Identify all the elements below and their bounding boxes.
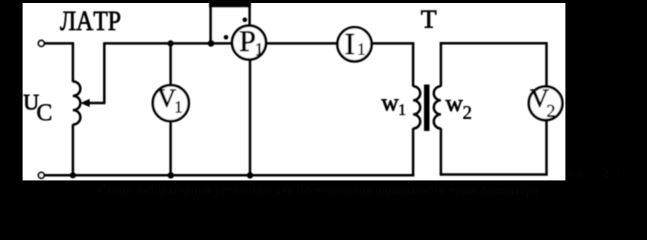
wire V2 vertical bottom: [545, 120, 548, 176]
polarity dot left of P1: [224, 35, 229, 40]
terminal top-left: [38, 41, 44, 47]
wire tap vertical: [103, 42, 106, 103]
wire V2 vertical top: [545, 42, 548, 87]
wattmeter P1 circle: [232, 26, 266, 60]
wattmeter current-coil box right side: [248, 4, 251, 27]
label LATR (autotransformer): [60, 12, 120, 31]
wire main top rail: [104, 42, 232, 45]
wire bottom rail: [45, 174, 415, 177]
wire secondary left vertical bottom: [440, 128, 443, 175]
wire P1 to I1: [265, 42, 339, 45]
voltmeter V2 circle: [529, 87, 563, 121]
wire primary right vertical: [412, 42, 415, 86]
label I1 inside ammeter: [346, 34, 354, 54]
junction dot bottom LATR: [70, 172, 76, 178]
wire LATR winding vertical top: [72, 42, 75, 82]
wire V1 vertical bottom: [169, 121, 172, 177]
autotransformer LATR winding coil: [73, 81, 80, 124]
svg-text:Рис. 2.1: Рис. 2.1: [568, 168, 622, 180]
wire I1 to corner: [371, 42, 414, 45]
transformer secondary winding w2 coil: [434, 86, 441, 128]
svg-text:Схема лабораторной установки д: Схема лабораторной установки для исследо…: [98, 183, 539, 197]
LATR tap arrowhead: [80, 99, 89, 107]
wire top-left horizontal from supply terminal: [45, 42, 75, 45]
wire secondary left vertical top: [440, 42, 443, 86]
label w2 (secondary winding): [446, 100, 463, 111]
wire P1 vertical bottom: [249, 59, 252, 176]
transformer core: [424, 85, 430, 132]
label V1 inside voltmeter: [158, 90, 176, 107]
ammeter I1 circle: [337, 27, 371, 61]
white figure panel: [23, 3, 566, 180]
transformer primary winding w1 coil: [413, 86, 420, 128]
wire LATR winding vertical bottom: [72, 124, 75, 176]
label V2 inside voltmeter: [530, 90, 548, 107]
junction dot bottom V1: [168, 172, 174, 178]
voltmeter V1 circle: [153, 85, 189, 121]
polarity dot above P1: [243, 18, 248, 23]
wattmeter current-coil box top bar: [209, 0, 251, 7]
wire secondary top rail: [440, 42, 548, 45]
wattmeter current-coil box left side: [209, 4, 212, 43]
label T (transformer): [421, 11, 436, 28]
label U_C (supply voltage): [24, 95, 39, 110]
terminal bottom-left: [38, 172, 44, 178]
junction dot top wattmeter box: [208, 40, 215, 47]
junction dot bottom P1: [247, 172, 253, 178]
label P1 inside wattmeter: [240, 31, 255, 51]
wire V1 vertical top: [169, 43, 172, 86]
junction dot top V1: [168, 40, 174, 46]
wire w1 bottom vertical: [412, 128, 415, 176]
wire tap horizontal to arrow: [88, 102, 105, 105]
label w1 (primary winding): [381, 99, 398, 110]
wire secondary bottom rail: [440, 173, 548, 176]
